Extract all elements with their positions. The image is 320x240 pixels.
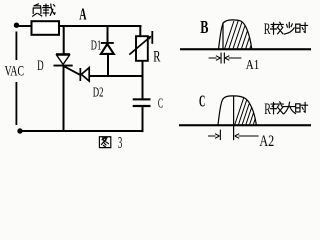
svg-text:D: D: [37, 58, 43, 74]
wire top rail into R: [139, 26, 141, 36]
diode D2 triangle: [81, 68, 89, 81]
label R较少时 glyph 少: [284, 23, 294, 35]
transistor D triac upper triangle: [57, 55, 70, 64]
waveform C axis: [179, 124, 311, 126]
resistor R arrowhead: [147, 36, 151, 40]
wire capacitor to bottom rail: [142, 107, 144, 132]
transistor D triac top bar: [56, 53, 70, 55]
svg-text:VAC: VAC: [5, 64, 24, 80]
label R较大时 glyph 大: [283, 102, 295, 114]
diode D1 triangle: [101, 44, 114, 54]
svg-text:R: R: [264, 101, 271, 118]
diode D1 cathode bar: [101, 42, 114, 44]
wire D2 to RC junction: [89, 75, 144, 77]
svg-text:R: R: [264, 21, 271, 38]
transistor D triac bottom bar: [54, 65, 73, 67]
wire R to capacitor: [142, 61, 144, 98]
waveform C hatch: [234, 97, 262, 126]
capacitor C top plate: [133, 98, 151, 100]
waveform B hatch: [224, 21, 259, 50]
caption 图 glyph: [99, 137, 110, 148]
svg-text:C: C: [158, 95, 163, 110]
node VAC top terminal: [14, 23, 19, 28]
svg-text:C: C: [199, 92, 205, 111]
waveform C dim arrow left: [208, 134, 219, 139]
svg-text:B: B: [200, 17, 208, 37]
capacitor C bottom plate: [133, 105, 151, 107]
diode D2 cathode bar: [80, 68, 82, 81]
wire load to node A and to R branch (top rail): [59, 25, 142, 27]
wire gate diagonal to D2: [64, 66, 80, 75]
wire top rail to triac: [63, 26, 65, 54]
waveform B firing line: [222, 23, 223, 50]
wire VAC left lower segment: [16, 82, 18, 125]
node VAC bottom terminal: [17, 128, 22, 133]
svg-text:A2: A2: [259, 133, 274, 150]
label 负载 glyph 载: [43, 4, 55, 16]
waveform C dim arrow right: [235, 134, 259, 139]
svg-text:R: R: [153, 48, 161, 65]
svg-text:A1: A1: [246, 57, 260, 72]
svg-text:A: A: [79, 5, 86, 24]
label 负载 glyph 负: [33, 4, 42, 16]
waveform B tick left: [221, 53, 222, 64]
wire top rail to D1: [107, 26, 109, 43]
label R较大时 glyph 时: [296, 102, 308, 112]
resistor 负载 load box: [32, 21, 60, 35]
waveform B axis: [180, 48, 311, 50]
label R较大时 glyph 较: [271, 102, 284, 114]
waveform B dim arrow left: [209, 56, 221, 61]
waveform C firing line and tick: [233, 97, 234, 141]
svg-text:D2: D2: [93, 86, 104, 101]
waveform C tick left: [220, 130, 221, 141]
label R较少时 glyph 较: [271, 22, 284, 34]
waveform B dim arrow right: [225, 56, 242, 61]
wire D1 to D2 wire: [107, 54, 109, 76]
label R较少时 glyph 时: [296, 23, 308, 33]
wire triac to bottom rail: [63, 67, 65, 131]
resistor R wiper arrow: [129, 37, 150, 55]
waveform C hump outline: [218, 96, 257, 126]
svg-text:3: 3: [118, 133, 122, 152]
wire VAC left upper segment: [16, 32, 18, 61]
wire terminal to load: [18, 25, 32, 27]
resistor R arrow stop bar: [151, 31, 153, 44]
resistor R box: [136, 36, 148, 61]
svg-text:D1: D1: [91, 39, 101, 54]
waveform B tick right: [224, 53, 225, 64]
wire bottom rail: [22, 130, 144, 132]
waveform B hump outline: [218, 20, 251, 50]
